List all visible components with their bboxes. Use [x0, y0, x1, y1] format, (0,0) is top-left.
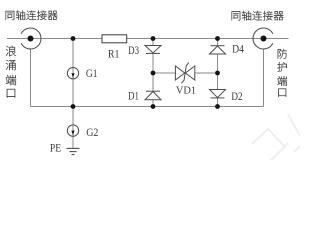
- label: right vertical 防护端口 (protected port): [277, 49, 287, 97]
- diode D4: [210, 46, 226, 54]
- wire: D4 to mid node: [217, 54, 219, 73]
- coaxial connector J2 (right, protected port): [253, 28, 273, 49]
- node: bottom rail / G2: [71, 104, 76, 109]
- resistor R1: [102, 35, 127, 43]
- label: top-left 同轴连接器 (coaxial connector): [6, 10, 58, 20]
- svg-text:G2: G2: [86, 127, 98, 139]
- wire: D2 to bottom rail: [217, 98, 219, 107]
- node: left mid (D3/D1/VD1): [151, 71, 156, 76]
- wire: top rail right segment: [127, 38, 264, 40]
- node: bottom rail / D1: [151, 104, 156, 109]
- wire: left mid node to VD1: [153, 72, 175, 74]
- TVS bidirectional diode VD1: [175, 63, 194, 84]
- wire: bottom rail: [31, 106, 264, 108]
- wire: D3 to mid node: [152, 53, 154, 73]
- svg-text:PE: PE: [50, 140, 61, 154]
- node: top rail / D3: [151, 36, 156, 41]
- wire: D1 to bottom rail: [152, 100, 154, 107]
- wire: G2 branch: [72, 107, 74, 149]
- wire: mid node to D2: [217, 73, 219, 90]
- node: right mid (D4/D2/VD1): [215, 71, 220, 76]
- coaxial connector J1 (left, surge port): [21, 28, 41, 49]
- wire: D4 branch top: [217, 39, 219, 46]
- wire: D3 branch top: [152, 39, 154, 46]
- svg-text:D2: D2: [231, 91, 242, 103]
- svg-text:VD1: VD1: [176, 86, 196, 97]
- svg-text:D1: D1: [128, 91, 139, 103]
- wire: VD1 to right mid node: [195, 72, 218, 74]
- wire: top rail left segment: [31, 38, 103, 40]
- diode D1: [145, 91, 161, 100]
- diode D2: [210, 90, 226, 98]
- diode D3: [145, 46, 161, 54]
- svg-text:G1: G1: [86, 68, 98, 80]
- node: bottom rail / D2: [215, 104, 220, 109]
- decorative: [252, 114, 301, 161]
- wire: mid node to D1: [152, 73, 154, 91]
- ground PE symbol: [67, 147, 80, 149]
- node: top rail / D4: [215, 36, 220, 41]
- wire: left connector shield drop: [30, 49, 32, 107]
- surge generator G2: [67, 125, 78, 136]
- svg-text:D4: D4: [232, 44, 244, 56]
- wire: left port stub: [7, 38, 31, 40]
- wire: right port stub: [264, 38, 289, 40]
- label: top-right 同轴连接器 (coaxial connector): [232, 11, 284, 21]
- node: top rail / G1: [71, 36, 76, 41]
- svg-text:R1: R1: [108, 49, 120, 61]
- surge generator G1: [67, 68, 78, 79]
- wire: right connector shield drop: [263, 49, 265, 107]
- label: left vertical 浪涌端口 (surge port): [6, 46, 16, 98]
- wire: G1 branch: [72, 39, 74, 107]
- svg-text:D3: D3: [128, 45, 139, 57]
